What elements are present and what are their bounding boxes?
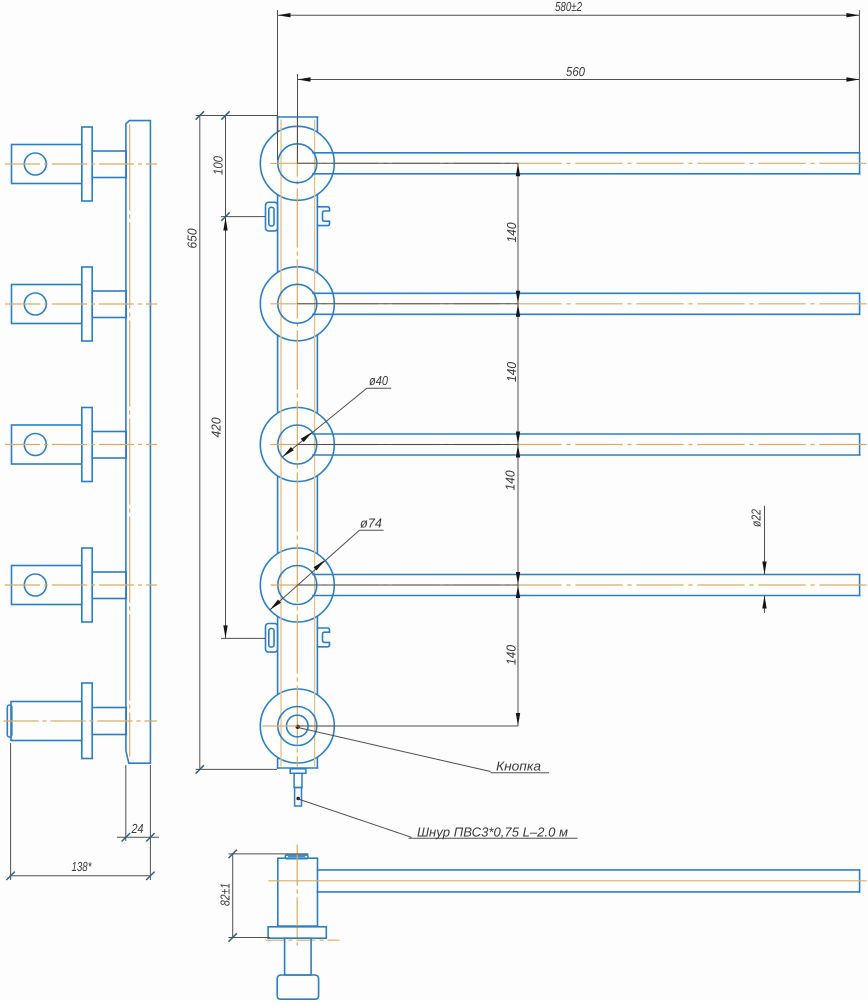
side bracket 2 flange bbox=[82, 267, 92, 341]
bar 4 end cap bbox=[859, 575, 861, 596]
column inner tan line left bbox=[280, 120, 282, 766]
dim 24 line bbox=[117, 836, 159, 838]
dim 560 left extension bbox=[297, 74, 299, 163]
dim 138 left tick bbox=[6, 872, 14, 880]
dim 580±2 left arrow bbox=[278, 13, 291, 17]
dim 650 top tick bbox=[196, 111, 204, 119]
side bracket 2 centerline bbox=[6, 303, 157, 305]
svg-text:140: 140 bbox=[504, 361, 519, 382]
side bracket 2 arm bbox=[12, 285, 82, 324]
bottom view knob bbox=[277, 975, 318, 999]
hub 1 inner circle bbox=[278, 144, 317, 183]
bottom view vertical centerline bbox=[296, 845, 298, 945]
dim 140-3 line bbox=[517, 445, 519, 586]
bar 3 top edge bbox=[313, 433, 860, 435]
dim 420 extension bbox=[221, 637, 266, 639]
cord label underline bbox=[409, 837, 578, 839]
front column right edge bbox=[316, 117, 318, 768]
bottom view flange centerline bbox=[266, 939, 339, 941]
side bracket 4 arm bbox=[12, 566, 82, 605]
dim 82±1 line bbox=[232, 854, 234, 938]
side bracket 3 hole bbox=[24, 434, 46, 456]
dim ø22 upper line bbox=[764, 506, 766, 575]
lower left wall clip slot bbox=[269, 629, 274, 648]
dim 24 right tick bbox=[146, 833, 154, 841]
bar 2 end cap bbox=[859, 293, 861, 314]
bar 1 top edge bbox=[313, 152, 860, 154]
dim 560 right arrow bbox=[846, 77, 859, 81]
dim 100 bottom tick bbox=[221, 212, 229, 220]
button leader line bbox=[298, 728, 491, 772]
side bracket 5 centerline bbox=[4, 720, 157, 722]
hub 5 outer circle bbox=[260, 689, 334, 763]
front cord stub bbox=[295, 788, 302, 807]
dim 650 line bbox=[199, 116, 201, 770]
dim 140-1 bottom arrow bbox=[516, 291, 520, 304]
bar 4 top edge bbox=[313, 574, 860, 576]
hub 5 horizontal centerline bbox=[263, 725, 334, 727]
dim ø22 lower arrow bbox=[762, 596, 766, 609]
column inner tan line right bbox=[314, 120, 316, 766]
hub 4 center extension line bbox=[297, 584, 518, 586]
dim 580±2 right arrow bbox=[846, 13, 859, 17]
side bracket 4 stem bbox=[92, 572, 126, 599]
bar 1 end cap bbox=[859, 153, 861, 174]
bar 4 bottom edge bbox=[313, 595, 860, 597]
dim 138 line bbox=[11, 875, 151, 877]
side bracket 3 stem bbox=[92, 432, 126, 459]
dim 560 line bbox=[298, 79, 860, 81]
hub 4 inner circle bbox=[278, 566, 317, 605]
bottom view bar bottom edge bbox=[318, 891, 860, 893]
hub 5 center extension line bbox=[297, 725, 518, 727]
lower right wall clip bbox=[317, 628, 329, 647]
front column bottom edge bbox=[278, 767, 318, 769]
dim 140-4 top arrow bbox=[516, 585, 520, 598]
dim 138 left extension bbox=[10, 743, 12, 880]
dim 650 bottom tick bbox=[196, 765, 204, 773]
hub 5 inner circle bbox=[278, 707, 317, 746]
bar 3 centerline bbox=[271, 444, 866, 446]
dim 560 left arrow bbox=[298, 77, 311, 81]
bar 2 centerline bbox=[271, 303, 866, 305]
dim ø40 arrow upper-right bbox=[301, 432, 312, 442]
bottom view stem bbox=[285, 938, 312, 975]
dim 24 right extension bbox=[149, 765, 151, 880]
button label underline bbox=[491, 772, 550, 774]
svg-text:82±1: 82±1 bbox=[218, 883, 233, 906]
lower left wall clip bbox=[266, 624, 278, 653]
cord stub hole dot bbox=[296, 797, 300, 801]
side bracket 5 end cap bbox=[7, 705, 12, 737]
hub 2 outer circle bbox=[260, 267, 334, 341]
svg-text:140: 140 bbox=[504, 644, 519, 665]
hub 3 center extension line bbox=[297, 444, 518, 446]
bar 3 end cap bbox=[859, 434, 861, 455]
front bottom cap plate bbox=[290, 769, 306, 774]
bar 2 top edge bbox=[313, 292, 860, 294]
side bracket 1 stem bbox=[92, 151, 126, 178]
dim ø40 leader line bbox=[282, 388, 391, 457]
side plate centerline (tan dash-dot) bbox=[129, 125, 131, 756]
svg-text:420: 420 bbox=[209, 417, 224, 438]
dim 420 top arrow bbox=[223, 218, 227, 231]
side bracket 5 flange bbox=[82, 683, 92, 759]
dim 140-2 bottom arrow bbox=[516, 432, 520, 445]
cord leader line bbox=[298, 799, 411, 837]
bar 3 bottom edge bbox=[313, 454, 860, 456]
svg-text:140: 140 bbox=[503, 470, 518, 491]
dim 100 extension bbox=[221, 216, 266, 218]
side bracket 2 hole bbox=[24, 293, 46, 315]
dim 140-3 bottom arrow bbox=[516, 572, 520, 585]
bottom view top cap bbox=[285, 855, 308, 859]
hub 5 center dot bbox=[296, 725, 300, 729]
side bracket 1 arm bbox=[12, 145, 82, 184]
svg-text:140: 140 bbox=[504, 222, 519, 243]
dim ø74 arrow upper-right bbox=[314, 560, 325, 570]
side view wall plate bbox=[126, 121, 150, 764]
bar 2 bottom edge bbox=[313, 313, 860, 315]
svg-text:Кнопка: Кнопка bbox=[496, 759, 541, 774]
dim 140-2 line bbox=[517, 304, 519, 445]
dim ø22 upper arrow bbox=[762, 562, 766, 575]
hub 2 inner circle bbox=[278, 284, 317, 323]
svg-text:Шнур ПВС3*0,75 L–2.0 м: Шнур ПВС3*0,75 L–2.0 м bbox=[417, 825, 568, 840]
dim 82±1 top tick bbox=[229, 850, 237, 858]
dim 650 top extension bbox=[196, 115, 278, 117]
side bracket 2 stem bbox=[92, 291, 126, 318]
front column left edge bbox=[277, 117, 279, 768]
dim ø22 lower line bbox=[764, 596, 766, 614]
hub 1 center extension line bbox=[297, 162, 518, 164]
bottom view bar end cap bbox=[859, 870, 861, 892]
bar 4 centerline bbox=[271, 584, 866, 586]
side bracket 5 stem bbox=[92, 708, 126, 735]
svg-text:580±2: 580±2 bbox=[555, 0, 583, 14]
side bracket 4 hole bbox=[24, 574, 46, 596]
hub 1 outer circle bbox=[260, 126, 334, 200]
svg-text:ø22: ø22 bbox=[749, 508, 764, 527]
dim 24 left tick bbox=[122, 833, 130, 841]
side bracket 4 flange bbox=[82, 548, 92, 622]
bar 1 bottom edge bbox=[313, 173, 860, 175]
side bracket 5 arm bbox=[11, 702, 82, 741]
dim 650 bottom extension bbox=[196, 768, 277, 770]
side bracket 3 flange bbox=[82, 408, 92, 482]
side bracket 1 flange bbox=[82, 127, 92, 201]
svg-text:24: 24 bbox=[131, 821, 144, 836]
svg-text:650: 650 bbox=[185, 228, 200, 249]
hub 5 button circle bbox=[287, 715, 309, 737]
hub 3 outer circle bbox=[260, 408, 334, 482]
upper right wall clip bbox=[317, 207, 329, 226]
side bracket 1 hole bbox=[24, 153, 46, 175]
dim 138 right tick bbox=[146, 872, 154, 880]
bottom view top cap inner line bbox=[289, 856, 305, 858]
dim 140-2 top arrow bbox=[516, 304, 520, 317]
dim 140-1 top arrow bbox=[516, 163, 520, 176]
bar 1 centerline bbox=[271, 162, 866, 164]
side bracket 3 arm bbox=[12, 425, 82, 464]
svg-text:138*: 138* bbox=[72, 859, 93, 874]
dim 580±2 left extension bbox=[277, 10, 279, 160]
dim 100 top tick bbox=[221, 111, 229, 119]
dim 140-4 line bbox=[517, 585, 519, 726]
dim 140-3 top arrow bbox=[516, 445, 520, 458]
side bracket 4 centerline bbox=[6, 584, 157, 586]
dim ø74 leader line bbox=[270, 530, 384, 610]
dim ø40 arrow lower-left bbox=[282, 447, 293, 457]
dim 140-1 line bbox=[517, 163, 519, 303]
dim 420 line bbox=[225, 217, 227, 639]
dim 580±2 line bbox=[278, 14, 860, 16]
side bracket 3 centerline bbox=[6, 444, 157, 446]
bottom view bar centerline bbox=[269, 880, 866, 882]
dim 140-4 bottom arrow bbox=[516, 713, 520, 726]
column center line (tan dash-dot) bbox=[296, 118, 298, 766]
upper left wall clip slot bbox=[269, 207, 274, 226]
bottom view flange bbox=[268, 927, 326, 938]
upper left wall clip bbox=[266, 202, 278, 231]
svg-text:100: 100 bbox=[211, 155, 226, 175]
hub 3 inner circle bbox=[278, 425, 317, 464]
dim 420 bottom arrow bbox=[223, 625, 227, 638]
dim 82±1 bottom extension bbox=[229, 937, 271, 939]
side bracket 1 centerline bbox=[6, 163, 157, 165]
dim 580±2 right extension bbox=[858, 10, 860, 152]
dim 24 left extension bbox=[125, 765, 127, 841]
svg-text:ø40: ø40 bbox=[369, 373, 389, 388]
svg-text:560: 560 bbox=[566, 64, 586, 79]
dim 100 line bbox=[225, 116, 227, 217]
front column top edge bbox=[278, 116, 318, 118]
bottom view bar top edge bbox=[318, 869, 860, 871]
hub 4 outer circle bbox=[260, 548, 334, 622]
dim ø74 arrow lower-left bbox=[270, 600, 281, 610]
svg-text:ø74: ø74 bbox=[360, 516, 382, 531]
front bottom neck bbox=[294, 773, 302, 787]
dim 82±1 bottom tick bbox=[229, 933, 237, 941]
hub 2 center extension line bbox=[297, 303, 518, 305]
dim 82±1 top extension bbox=[229, 853, 309, 855]
bottom view hub cylinder bbox=[278, 858, 318, 926]
